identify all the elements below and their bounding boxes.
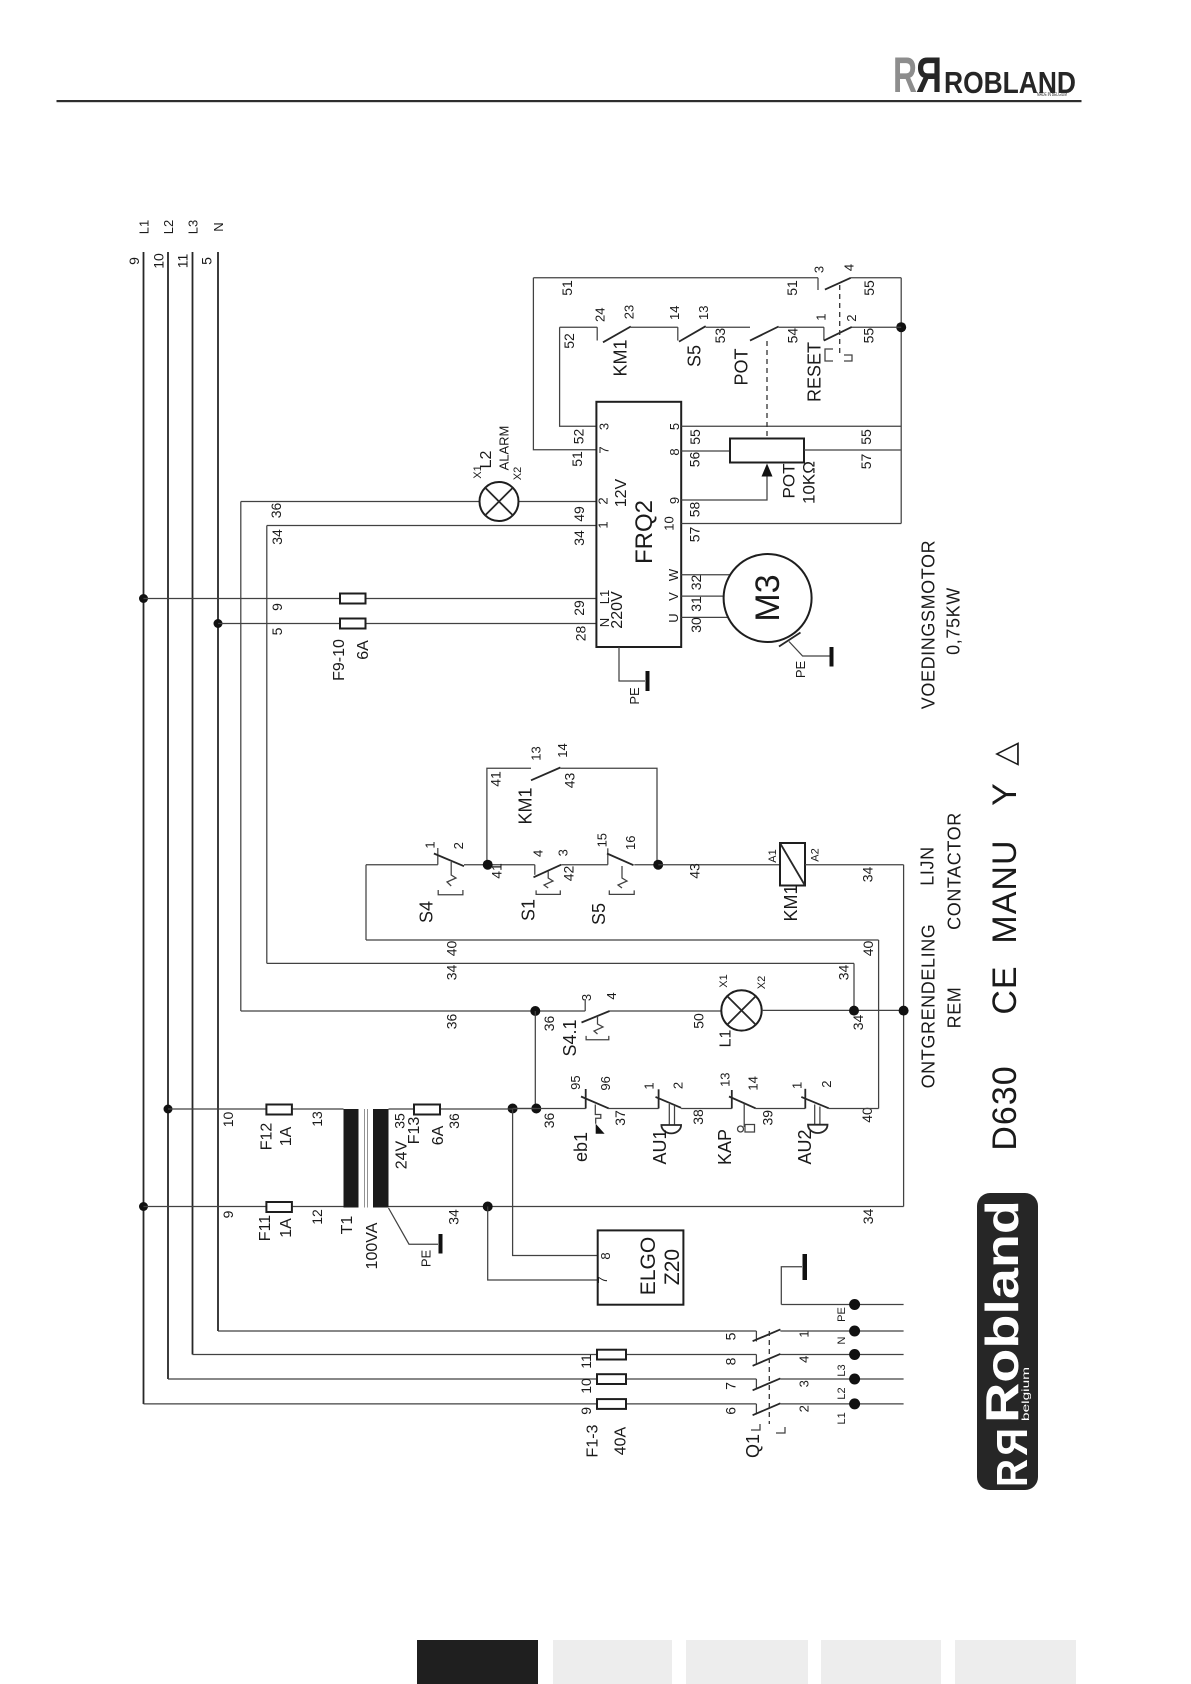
svg-text:55: 55 — [861, 328, 877, 344]
estop AU1 tick — [658, 1089, 660, 1108]
wire 5 to FRQ2 N — [218, 623, 596, 625]
svg-text:34: 34 — [850, 1015, 866, 1031]
L2 terminal wire — [780, 1378, 903, 1380]
svg-text:36: 36 — [446, 1113, 462, 1129]
svg-text:30: 30 — [688, 617, 704, 633]
bus 34 right vertical — [903, 865, 905, 1207]
svg-text:F9-10: F9-10 — [331, 639, 348, 681]
svg-text:40: 40 — [444, 941, 460, 957]
svg-text:54: 54 — [785, 328, 801, 344]
brake lamp L1 — [721, 990, 761, 1030]
svg-text:41: 41 — [488, 771, 504, 787]
svg-text:A1: A1 — [767, 849, 779, 862]
svg-text:7: 7 — [722, 1382, 738, 1390]
eb1 thermal element — [595, 1105, 601, 1124]
svg-text:40: 40 — [860, 941, 876, 957]
svg-text:5: 5 — [199, 257, 215, 265]
svg-text:X1: X1 — [718, 974, 730, 987]
S5 actuator bracket — [609, 890, 634, 894]
svg-text:L1: L1 — [137, 220, 152, 234]
svg-text:L2: L2 — [478, 451, 495, 469]
svg-text:55: 55 — [858, 429, 874, 445]
svg-text:AU1: AU1 — [650, 1129, 670, 1164]
svg-text:3: 3 — [579, 994, 594, 1001]
svg-text:1: 1 — [423, 841, 438, 848]
S5 actuator spring — [618, 866, 627, 888]
fuse F1 — [597, 1350, 626, 1360]
Robland logo mark mirrored R — [988, 1428, 1037, 1456]
L2 row wire 10 — [168, 1378, 756, 1380]
thermal contact eb1 tick — [585, 1089, 587, 1109]
svg-text:220V: 220V — [609, 591, 626, 629]
svg-text:9: 9 — [667, 497, 682, 504]
stop button S5 blade — [607, 854, 634, 866]
junction dot bus 34 — [899, 1006, 909, 1016]
svg-text:57: 57 — [858, 454, 874, 470]
svg-text:AU2: AU2 — [795, 1129, 815, 1164]
svg-text:N: N — [211, 222, 226, 231]
svg-text:51: 51 — [569, 451, 585, 467]
L1 row wire 9 — [144, 1403, 757, 1405]
svg-text:14: 14 — [667, 306, 682, 320]
contact KM1 NO blade — [603, 327, 631, 343]
svg-text:56: 56 — [687, 452, 703, 468]
wire 51 top row — [533, 277, 818, 279]
svg-text:8: 8 — [667, 448, 682, 455]
svg-text:34: 34 — [444, 965, 460, 981]
svg-text:KM1: KM1 — [781, 884, 801, 921]
wire S1 to S5 — [561, 864, 608, 866]
svg-text:4: 4 — [842, 264, 857, 271]
svg-text:41: 41 — [489, 863, 505, 879]
PE row wire — [781, 1304, 903, 1306]
rail N — [217, 252, 219, 1331]
pushbutton S4 tick — [437, 848, 439, 865]
svg-text:LIJN: LIJN — [918, 846, 938, 885]
Q1 pole L3 tick — [755, 1355, 757, 1366]
PE ground bar — [803, 1254, 808, 1280]
svg-text:50: 50 — [691, 1013, 707, 1029]
wire AU1 to KAP — [681, 1108, 732, 1110]
svg-text:Y: Y — [986, 783, 1024, 806]
svg-text:L1: L1 — [836, 1412, 848, 1424]
transformer T1 primary bar — [344, 1109, 359, 1208]
svg-text:RESET: RESET — [805, 342, 825, 402]
wire 52 row2 segments — [560, 326, 902, 328]
wire 31 V to motor — [681, 595, 726, 597]
svg-text:R: R — [916, 47, 942, 103]
svg-text:32: 32 — [688, 575, 704, 591]
svg-text:31: 31 — [688, 596, 704, 612]
junction dot bus — [896, 322, 906, 332]
svg-text:52: 52 — [571, 429, 587, 445]
FRQ2 PE wire — [619, 647, 645, 681]
svg-text:F1-3: F1-3 — [585, 1424, 602, 1457]
svg-text:ONTGRENDELING: ONTGRENDELING — [919, 924, 939, 1089]
svg-text:A2: A2 — [810, 848, 822, 861]
svg-text:1A: 1A — [278, 1218, 295, 1238]
svg-text:2: 2 — [797, 1405, 812, 1412]
contact KM1 aux blade — [531, 768, 560, 781]
N terminal dot — [849, 1326, 860, 1337]
svg-text:5: 5 — [722, 1332, 738, 1340]
svg-text:R: R — [988, 1428, 1037, 1456]
svg-text:L1: L1 — [718, 1030, 735, 1048]
svg-text:34: 34 — [446, 1209, 462, 1225]
brake switch S4.1 blade — [582, 1011, 610, 1023]
brake switch S4.1 tick — [584, 999, 586, 1011]
wire 52 vertical — [560, 327, 597, 426]
svg-text:96: 96 — [598, 1076, 613, 1090]
wire 55 pin5 to bus — [681, 425, 901, 427]
svg-text:10: 10 — [578, 1378, 594, 1394]
svg-text:1: 1 — [814, 313, 829, 320]
wiper dashed link — [766, 341, 768, 437]
svg-text:4: 4 — [604, 992, 619, 999]
AU1 mushroom cap — [661, 1125, 681, 1133]
svg-text:55: 55 — [861, 280, 877, 296]
fuse F13 — [414, 1105, 440, 1115]
svg-text:11: 11 — [578, 1354, 594, 1369]
wire S5 to junction 43 — [634, 864, 658, 866]
L2 terminal dot — [849, 1374, 860, 1385]
svg-text:36: 36 — [444, 1014, 460, 1030]
fuse F3 — [597, 1399, 626, 1409]
fuse F10 — [340, 619, 366, 629]
svg-text:7: 7 — [597, 446, 612, 453]
thumbnail 3 — [686, 1640, 808, 1684]
T1 PE bar — [439, 1234, 443, 1254]
junction dot 36 — [530, 1006, 540, 1016]
svg-text:ALARM: ALARM — [497, 426, 512, 471]
wire to junction 41 — [464, 864, 535, 866]
svg-text:3: 3 — [556, 849, 571, 856]
svg-text:F11: F11 — [257, 1215, 274, 1241]
motor PE bar — [830, 647, 834, 667]
contact POT blade — [750, 327, 779, 341]
POT right wire 57 — [681, 450, 901, 524]
svg-text:38: 38 — [690, 1109, 706, 1125]
wire 56 pin8 to POT — [681, 450, 730, 452]
wire 24 to ELGO pin 8 — [513, 1109, 598, 1256]
svg-text:ELGO: ELGO — [637, 1237, 660, 1295]
svg-text:100VA: 100VA — [364, 1222, 381, 1269]
junction dot 43 — [653, 860, 663, 870]
svg-text:9: 9 — [220, 1210, 236, 1218]
svg-text:FRQ2: FRQ2 — [631, 500, 658, 564]
estop AU2 blade — [801, 1097, 829, 1108]
thermal contact eb1 blade — [581, 1097, 609, 1109]
wire 58 pin9 to wiper — [681, 477, 767, 501]
AU1 mushroom stem — [669, 1104, 674, 1125]
svg-text:95: 95 — [568, 1075, 583, 1089]
svg-text:Z20: Z20 — [661, 1249, 684, 1285]
fuse F9 — [340, 594, 366, 604]
contact KM1 NO tick — [596, 327, 598, 340]
AU2 mushroom stem — [815, 1105, 820, 1125]
svg-text:11: 11 — [175, 254, 191, 269]
svg-text:Q1: Q1 — [743, 1434, 763, 1458]
wire 51 vertical — [533, 278, 596, 450]
fuse F12 — [266, 1105, 292, 1115]
L1 terminal dot — [849, 1398, 860, 1409]
rail L3 — [192, 252, 194, 1355]
thumbnail 2 — [553, 1640, 672, 1684]
contactor coil KM1 — [780, 843, 805, 886]
svg-text:2: 2 — [671, 1082, 686, 1089]
wire 35 secondary top — [389, 1108, 513, 1110]
N terminal wire — [780, 1330, 903, 1332]
logo mark black mirrored R — [916, 47, 942, 103]
estop AU2 tick — [804, 1089, 806, 1109]
svg-text:2: 2 — [819, 1080, 834, 1087]
Q1 pole L3 blade — [753, 1354, 781, 1366]
wire lamp to bus — [762, 1009, 904, 1011]
wire row 1108 link — [513, 1108, 537, 1110]
svg-text:S5: S5 — [685, 345, 705, 367]
svg-text:9: 9 — [269, 603, 285, 611]
svg-text:5: 5 — [667, 423, 682, 430]
svg-text:6A: 6A — [430, 1125, 447, 1145]
potentiometer POT 10K box — [730, 439, 804, 463]
eb1 trip arrow — [596, 1124, 605, 1134]
L3 terminal dot — [849, 1349, 860, 1360]
svg-text:V: V — [666, 592, 681, 601]
transformer T1 core lines — [365, 1109, 368, 1208]
svg-text:2: 2 — [844, 314, 859, 321]
junction on L2 wire 10 — [164, 1105, 173, 1114]
svg-text:10: 10 — [151, 253, 167, 269]
svg-text:3: 3 — [797, 1380, 812, 1387]
left branch vertical 40 — [365, 865, 367, 940]
thumbnail 5 — [955, 1640, 1076, 1684]
svg-text:4: 4 — [797, 1356, 812, 1363]
svg-text:1A: 1A — [278, 1126, 295, 1146]
wire 9 to FRQ2 L1 — [144, 598, 597, 600]
svg-text:16: 16 — [623, 836, 638, 850]
pushbutton S1 tick — [534, 865, 536, 875]
junction dot wire 34 — [483, 1202, 493, 1212]
svg-text:KAP: KAP — [715, 1129, 735, 1165]
svg-text:L3: L3 — [186, 220, 201, 234]
svg-text:3: 3 — [812, 266, 827, 273]
svg-text:23: 23 — [622, 305, 637, 319]
svg-text:KM1: KM1 — [516, 787, 536, 824]
svg-text:36: 36 — [541, 1113, 557, 1129]
svg-text:L3: L3 — [836, 1364, 848, 1376]
svg-text:eb1: eb1 — [571, 1132, 591, 1162]
svg-text:MANU: MANU — [986, 839, 1024, 943]
contact RESET NO top blade — [825, 278, 851, 290]
svg-text:L2: L2 — [161, 220, 176, 234]
svg-text:1: 1 — [642, 1082, 657, 1089]
wire AU2 to corner — [829, 1108, 879, 1110]
wire 43 to coil — [658, 864, 780, 866]
wire to ELGO pin 7 — [488, 1207, 598, 1281]
svg-text:PE: PE — [419, 1250, 434, 1268]
svg-text:CE: CE — [986, 965, 1024, 1014]
wire 34 secondary bottom — [389, 1206, 904, 1208]
svg-text:PE: PE — [793, 661, 808, 679]
contact S5 NO blade — [679, 326, 706, 341]
svg-text:8: 8 — [722, 1357, 738, 1365]
svg-text:X2: X2 — [512, 467, 524, 480]
svg-text:14: 14 — [746, 1076, 761, 1090]
svg-text:L2: L2 — [836, 1387, 848, 1399]
vertical 36 to row 1108 — [534, 1011, 536, 1109]
PE terminal dot — [849, 1299, 860, 1310]
svg-text:34: 34 — [836, 965, 852, 981]
wire 34 vertical long — [266, 526, 268, 964]
svg-text:51: 51 — [559, 280, 575, 296]
svg-text:34: 34 — [860, 1209, 876, 1225]
cover switch KAP blade — [729, 1097, 756, 1109]
svg-text:F13: F13 — [406, 1117, 423, 1145]
reset latch bracket left — [825, 349, 833, 361]
svg-text:40: 40 — [859, 1107, 875, 1123]
svg-text:57: 57 — [687, 527, 703, 543]
svg-text:belgium: belgium — [1021, 1367, 1032, 1421]
svg-text:△: △ — [987, 742, 1022, 766]
svg-text:58: 58 — [687, 502, 703, 518]
svg-text:1: 1 — [596, 521, 611, 528]
svg-text:53: 53 — [712, 328, 728, 344]
reset mechanical dashed link — [839, 285, 841, 357]
wire eb1 to AU1 — [609, 1108, 659, 1110]
svg-text:51: 51 — [784, 280, 800, 296]
L3 terminal wire — [780, 1354, 903, 1356]
frequency drive FRQ2 box — [596, 402, 681, 647]
FRQ2 PE bar — [646, 671, 650, 691]
junction dot wire24 — [508, 1104, 518, 1114]
svg-text:2: 2 — [596, 497, 611, 504]
svg-text:PE: PE — [627, 687, 642, 705]
svg-text:34: 34 — [571, 530, 587, 546]
Q1 pole L1 tick — [755, 1404, 757, 1415]
junction on L1 wire 9 — [139, 594, 148, 603]
reset latch bracket right — [844, 355, 852, 361]
motor PE wire — [789, 642, 830, 657]
wire 40 right vertical — [878, 940, 880, 1109]
svg-text:43: 43 — [687, 863, 703, 879]
svg-text:13: 13 — [309, 1111, 325, 1127]
S1 actuator bracket — [536, 890, 560, 894]
svg-text:KM1: KM1 — [611, 339, 631, 376]
svg-text:VOEDINGSMOTOR: VOEDINGSMOTOR — [919, 540, 939, 709]
wire 49 lamp branch — [241, 501, 597, 503]
S4.1 actuator bracket — [586, 1036, 609, 1040]
Q1 pole L2 blade — [753, 1378, 781, 1390]
L1 terminal wire — [780, 1403, 903, 1405]
wire 9 primary bottom — [144, 1206, 344, 1208]
rail L2 — [167, 252, 169, 1379]
alarm lamp L2 — [480, 482, 519, 521]
svg-text:8: 8 — [598, 1252, 613, 1259]
Q1 dashed link — [768, 1331, 770, 1424]
rail L1 — [143, 252, 145, 1404]
motor frame slash — [779, 633, 801, 647]
S4 actuator spring — [447, 862, 456, 886]
S4.1 actuator spring — [594, 1016, 603, 1034]
junction dot 41 — [483, 860, 493, 870]
svg-text:REM: REM — [945, 987, 965, 1029]
svg-text:12: 12 — [309, 1209, 325, 1225]
svg-text:1: 1 — [790, 1082, 805, 1089]
stop button S5 tick — [607, 848, 609, 864]
svg-text:D630: D630 — [986, 1065, 1024, 1150]
contact RESET tick — [823, 327, 825, 340]
contact S5 NO tick — [677, 327, 679, 340]
thumbnail 4 — [821, 1640, 941, 1684]
svg-text:13: 13 — [696, 306, 711, 320]
svg-text:R: R — [988, 1459, 1037, 1487]
Q1 pole L1 blade — [753, 1403, 781, 1415]
wire KAP to AU2 — [756, 1108, 806, 1110]
svg-text:4: 4 — [530, 850, 545, 857]
svg-text:6: 6 — [722, 1407, 738, 1415]
wire 34 right vertical — [853, 963, 855, 1010]
KM1 aux branch right wire 43 — [560, 768, 657, 865]
Q1 pole N blade — [753, 1329, 781, 1341]
wire 55 top right — [851, 277, 901, 279]
N row wire 5 — [218, 1330, 756, 1332]
svg-text:R: R — [893, 47, 917, 103]
svg-text:T1: T1 — [339, 1216, 356, 1235]
wire 34 to FRQ2 pin1 — [267, 525, 597, 527]
T1 PE tap — [389, 1208, 439, 1244]
svg-text:S1: S1 — [519, 899, 539, 921]
KM1 aux branch left vertical wire 41 — [487, 768, 531, 865]
svg-text:S5: S5 — [589, 903, 609, 925]
AU2 mushroom cap — [808, 1125, 828, 1133]
S4 actuator bracket — [438, 890, 463, 895]
svg-text:34: 34 — [860, 867, 876, 883]
Q1 pole L2 tick — [755, 1379, 757, 1390]
svg-text:POT: POT — [732, 348, 752, 385]
wire to eb1 — [513, 1108, 586, 1110]
svg-text:CONTACTOR: CONTACTOR — [945, 812, 965, 930]
svg-text:2: 2 — [451, 842, 466, 849]
svg-text:F12: F12 — [259, 1123, 276, 1151]
svg-text:40A: 40A — [613, 1426, 630, 1455]
svg-text:49: 49 — [571, 506, 587, 522]
wire 10 primary top — [168, 1108, 344, 1110]
svg-text:29: 29 — [571, 600, 587, 616]
svg-text:36: 36 — [541, 1016, 557, 1032]
svg-text:M3: M3 — [749, 574, 787, 621]
svg-text:S4.1: S4.1 — [560, 1019, 580, 1056]
Robland logo block — [977, 1193, 1038, 1490]
wire 36 vertical long — [240, 502, 242, 1012]
thumbnail 1 active — [417, 1640, 538, 1684]
svg-text:10KΩ: 10KΩ — [800, 461, 819, 504]
svg-text:36: 36 — [268, 503, 284, 519]
svg-text:7: 7 — [595, 1276, 610, 1283]
ELGO Z20 box — [598, 1230, 684, 1304]
svg-text:24: 24 — [593, 308, 608, 322]
svg-text:14: 14 — [555, 743, 570, 757]
wire 40 row — [366, 939, 879, 941]
svg-text:X2: X2 — [756, 976, 768, 989]
KAP actuator icon — [743, 1104, 745, 1128]
svg-text:10: 10 — [220, 1112, 236, 1128]
lamp row wire 36 — [241, 1010, 585, 1012]
svg-text:U: U — [666, 613, 681, 622]
motor M3 circle — [724, 554, 812, 642]
fuse F2 — [597, 1374, 626, 1384]
PE ground wire — [781, 1267, 802, 1305]
S1 actuator spring — [544, 871, 553, 888]
